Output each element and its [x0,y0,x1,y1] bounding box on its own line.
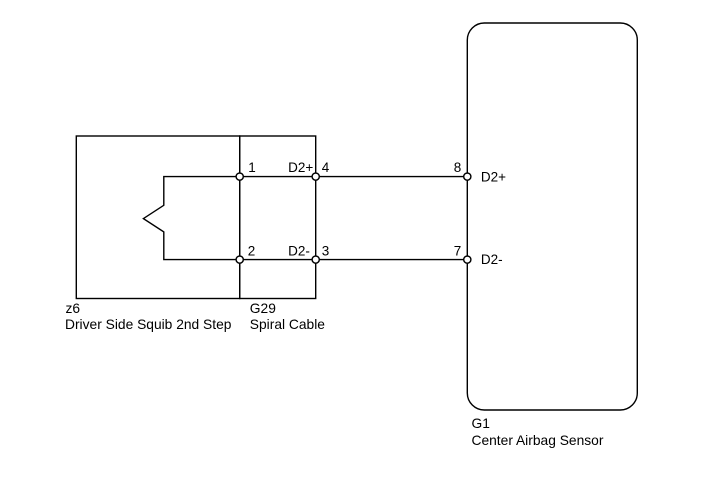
svg-text:7: 7 [454,243,462,258]
connector z6 (Driver Side Squib 2nd Step) box [76,136,239,299]
svg-text:D2+: D2+ [288,160,313,175]
svg-text:D2-: D2- [288,243,310,258]
svg-text:D2+: D2+ [481,169,506,184]
svg-text:Spiral Cable: Spiral Cable [250,317,325,332]
svg-text:Driver Side Squib 2nd Step: Driver Side Squib 2nd Step [65,317,232,332]
terminal pin 3 [312,256,319,263]
squib z6 igniter symbol [143,177,239,260]
svg-text:4: 4 [322,160,330,175]
svg-text:D2-: D2- [481,252,503,267]
svg-text:G29: G29 [250,301,276,316]
svg-text:Center Airbag Sensor: Center Airbag Sensor [472,433,604,448]
terminal pin 7 [464,256,471,263]
svg-text:G1: G1 [472,416,490,431]
svg-text:3: 3 [322,243,330,258]
svg-text:8: 8 [454,160,462,175]
terminal pin 2 [236,256,243,263]
terminal pin 4 [312,173,319,180]
terminal pin 1 [236,173,243,180]
svg-text:1: 1 [248,160,256,175]
terminal pin 8 [464,173,471,180]
svg-text:z6: z6 [66,301,81,316]
wire D2- (pin 2 to pin 3 to pin 7) [240,259,468,261]
svg-text:2: 2 [248,243,256,258]
sensor G1 (Center Airbag Sensor) box [467,23,637,410]
connector G29 (Spiral Cable) box [240,136,316,299]
wire D2+ (pin 1 to pin 4 to pin 8) [240,176,468,178]
